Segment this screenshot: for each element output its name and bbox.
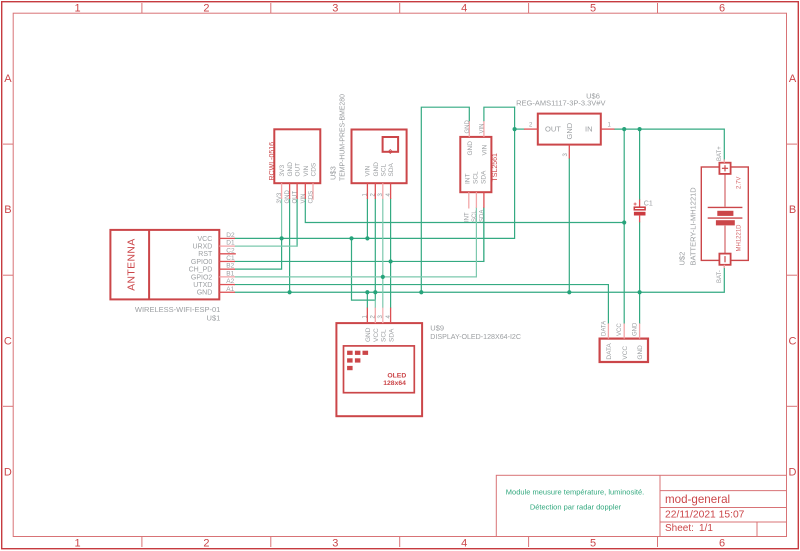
OLED pin numbers rotated [363, 315, 392, 319]
wire D1 net URXD light [235, 245, 297, 247]
ESP net labels [226, 232, 235, 293]
svg-text:SCL: SCL [380, 163, 387, 176]
svg-text:VCC: VCC [198, 236, 213, 243]
svg-text:B: B [789, 204, 796, 216]
svg-text:SDA: SDA [388, 162, 395, 176]
frame column numbers bottom [74, 538, 725, 550]
node BAT+/connector VCC [622, 127, 626, 131]
svg-text:U$9: U$9 [430, 324, 444, 333]
svg-text:VIN: VIN [482, 144, 489, 155]
svg-text:4: 4 [461, 538, 467, 550]
display outer box [336, 323, 422, 416]
frame row ticks right [787, 144, 798, 406]
node GND/RCWL [288, 290, 292, 294]
ESP pin stubs [219, 238, 236, 292]
wire VCC branch to OLED pin2 L-path [352, 238, 376, 300]
frame row letters right [789, 73, 797, 479]
battery pin stubs [723, 160, 725, 269]
RCWL net labels rotated [277, 190, 314, 204]
svg-text:128x64: 128x64 [383, 380, 406, 387]
svg-text:URXD: URXD [192, 244, 212, 251]
plus symbol [722, 165, 728, 171]
frame column ticks top [142, 3, 658, 13]
light sensor box [460, 137, 491, 192]
svg-text:RCWL-0516: RCWL-0516 [269, 142, 276, 181]
battery plates [708, 206, 743, 208]
wire RCWL OUT vertical [296, 199, 298, 246]
svg-text:GND: GND [373, 162, 380, 177]
TSL bottom pin stubs [469, 192, 484, 208]
wire VCC D2 net: ESP VCC to regulator OUT [235, 107, 515, 238]
node D2/BME VIN [365, 236, 369, 240]
frame column ticks bottom [142, 537, 658, 548]
svg-text:B2: B2 [226, 263, 234, 270]
svg-text:GND: GND [287, 162, 294, 177]
cap top plate [634, 207, 645, 210]
svg-text:A2: A2 [226, 278, 234, 285]
BAT+ terminal box [719, 163, 730, 174]
svg-text:SDA: SDA [388, 328, 395, 342]
connector box [600, 339, 648, 362]
inner sub box [383, 137, 399, 152]
svg-text:3: 3 [332, 3, 338, 15]
svg-text:GND: GND [285, 190, 291, 204]
connector pin stubs [608, 323, 639, 338]
svg-text:GPIO2: GPIO2 [191, 274, 213, 281]
wire TSL VIN to regulator OUT column [484, 107, 515, 121]
wire RCWL GND vertical [289, 199, 291, 292]
svg-text:INT: INT [464, 212, 470, 222]
wire regulator OUT pin2 [515, 128, 524, 130]
svg-text:VCC: VCC [617, 323, 623, 336]
svg-text:GND: GND [465, 120, 471, 134]
TSL pin names inside bottom [464, 170, 487, 184]
node VCC column/reg OUT [513, 127, 517, 131]
wire connector VCC column [623, 129, 625, 323]
svg-text:D: D [789, 467, 797, 479]
svg-text:2: 2 [203, 3, 209, 15]
wire OLED pin2 VCC light segment [374, 300, 376, 308]
svg-text:3: 3 [563, 153, 569, 157]
wire GND A1 rail [235, 265, 724, 292]
svg-text:C: C [4, 336, 12, 348]
node GND/BME GND [373, 290, 377, 294]
frame column numbers top [74, 3, 725, 15]
svg-text:UTXD: UTXD [193, 282, 212, 289]
svg-text:A: A [4, 73, 12, 85]
svg-text:C1: C1 [644, 201, 653, 208]
svg-text:ANTENNA: ANTENNA [126, 238, 137, 290]
svg-text:INT: INT [464, 174, 471, 185]
node GND/OLED pin1 [365, 290, 369, 294]
screen pixel pattern [347, 351, 368, 370]
regulator box [538, 114, 601, 145]
svg-text:D1: D1 [226, 240, 235, 247]
svg-text:VIN: VIN [479, 123, 485, 133]
wire CH_PD B2 to 3V3 column [235, 238, 282, 269]
svg-text:GND: GND [197, 290, 213, 297]
OLED pin stubs [367, 308, 390, 324]
cap stubs [639, 200, 641, 223]
wire OLED pin1 GND vertical [366, 292, 368, 307]
temp sensor box [352, 130, 407, 184]
svg-text:1: 1 [74, 538, 80, 550]
connector pin names inside [606, 343, 644, 360]
svg-text:2.7V: 2.7V [736, 177, 742, 189]
node D2/OLED VCC branch [349, 236, 353, 240]
svg-text:DATA: DATA [601, 321, 607, 336]
wire RCWL 3V3 light vertical [281, 199, 283, 238]
wire BME VIN vertical [366, 199, 368, 238]
radar sensor box [274, 129, 320, 183]
svg-text:B1: B1 [226, 270, 234, 277]
svg-text:3: 3 [332, 538, 338, 550]
svg-text:OUT: OUT [295, 163, 302, 177]
svg-text:5: 5 [590, 3, 596, 15]
svg-text:IN: IN [585, 125, 593, 134]
svg-text:GND: GND [365, 327, 372, 342]
svg-text:2: 2 [529, 123, 533, 129]
node GND/TSL loop [419, 290, 423, 294]
svg-text:mod-general: mod-general [665, 493, 730, 506]
display screen box [344, 346, 415, 393]
battery outline [701, 167, 748, 260]
svg-text:BATTERY-LI-MH1221D: BATTERY-LI-MH1221D [689, 187, 698, 266]
wire UTXD A2 net to connector DATA [235, 285, 608, 324]
svg-text:B: B [4, 204, 11, 216]
svg-text:CH_PD: CH_PD [189, 267, 213, 274]
svg-text:C2: C2 [226, 247, 235, 254]
frame row ticks left [3, 144, 13, 406]
svg-text:U$2: U$2 [677, 252, 686, 266]
wire BAT+ top rail from regulator IN [615, 129, 725, 160]
BME pin names inside [364, 162, 395, 177]
regulator pin stubs [524, 129, 615, 158]
svg-text:4: 4 [461, 3, 467, 15]
node D2/3V3 [280, 236, 284, 240]
svg-text:SDA: SDA [479, 210, 485, 222]
svg-text:U$1: U$1 [207, 313, 221, 322]
wire RCWL VIN to VCC junction column [305, 199, 624, 223]
svg-text:C: C [789, 336, 797, 348]
cap bottom plate [634, 212, 646, 216]
wire BME SCL light vertical to OLED pin3 [382, 199, 384, 308]
svg-text:D: D [4, 467, 12, 479]
wire TSL SDA vertical [483, 208, 485, 262]
junction dots [280, 127, 642, 294]
wire cap C1 top column [639, 129, 641, 199]
frame row letters left [4, 73, 12, 479]
svg-text:GPIO0: GPIO0 [191, 259, 213, 266]
svg-text:GND: GND [637, 345, 644, 360]
svg-text:TSL2561: TSL2561 [492, 153, 499, 182]
svg-text:CDS: CDS [309, 191, 315, 204]
wire SCL B1 net light horizontal [235, 208, 476, 277]
TSL bottom net labels rotated [464, 210, 485, 222]
svg-text:OUT: OUT [545, 125, 561, 134]
node BAT+/cap [638, 127, 642, 131]
svg-text:DATA: DATA [606, 343, 613, 360]
svg-text:D2: D2 [226, 232, 235, 239]
svg-text:VIN: VIN [303, 165, 310, 176]
svg-text:A1: A1 [226, 286, 234, 293]
node SCL/BME [381, 275, 385, 279]
svg-text:BAT+: BAT+ [717, 146, 723, 161]
RCWL pin names inside [279, 162, 317, 177]
svg-text:TEMP-HUM-PRES-BME280: TEMP-HUM-PRES-BME280 [339, 94, 346, 181]
cap plus mark [634, 203, 637, 206]
svg-text:RST: RST [198, 251, 213, 258]
TSL top pin stubs [469, 121, 484, 137]
BAT- terminal box [719, 254, 730, 265]
svg-text:GND: GND [632, 322, 638, 336]
svg-text:Détection par radar doppler: Détection par radar doppler [530, 503, 622, 512]
svg-text:6: 6 [719, 3, 725, 15]
svg-text:Module meusure température, lu: Module meusure température, luminosité. [506, 487, 644, 496]
svg-text:MH1221D: MH1221D [736, 224, 742, 252]
svg-text:SCL: SCL [472, 210, 478, 222]
svg-text:1/1: 1/1 [699, 523, 713, 534]
BME pin stubs [367, 183, 390, 199]
light nets [235, 199, 476, 308]
svg-text:OUT: OUT [293, 191, 299, 204]
svg-text:22/11/2021 15:07: 22/11/2021 15:07 [665, 510, 745, 521]
svg-text:CDS: CDS [311, 162, 318, 176]
svg-text:GND: GND [467, 141, 474, 156]
node GND/cap column [638, 290, 642, 294]
node GND/reg pin3 [567, 290, 571, 294]
wire TSL GND loop to GND rail [421, 107, 469, 292]
node SDA/BME [389, 259, 393, 263]
svg-text:A: A [789, 73, 797, 85]
ESP pin names [189, 236, 213, 297]
wireless module U$1 box [110, 230, 219, 300]
title block [496, 475, 786, 536]
svg-text:SCL: SCL [472, 171, 479, 184]
svg-text:REG-AMS1117-3P-3.3V#V: REG-AMS1117-3P-3.3V#V [516, 99, 605, 108]
svg-text:3V3: 3V3 [279, 165, 286, 177]
svg-text:VIN: VIN [364, 165, 371, 176]
svg-text:VCC: VCC [373, 328, 380, 342]
inner diamond mark [388, 150, 392, 154]
TSL top net labels rotated [465, 120, 486, 134]
node VIN line/connector VCC [622, 220, 626, 224]
svg-text:Sheet:: Sheet: [665, 523, 694, 534]
svg-text:GND: GND [565, 122, 574, 139]
svg-text:OLED: OLED [387, 372, 406, 379]
connector net labels rotated [601, 321, 638, 336]
wire regulator GND pin3 vertical [568, 159, 570, 293]
svg-text:1: 1 [608, 123, 612, 129]
wire cap C1 bottom to connector GND [639, 222, 641, 323]
svg-text:SCL: SCL [381, 329, 388, 342]
svg-text:VCC: VCC [622, 346, 629, 360]
wire BME SDA vertical down to OLED pin4 [390, 199, 392, 308]
TSL pin names inside top [467, 141, 489, 156]
wire SDA C1 net horizontal [235, 208, 484, 262]
svg-text:DISPLAY-OLED-128X64-I2C: DISPLAY-OLED-128X64-I2C [430, 333, 521, 341]
svg-text:2: 2 [203, 538, 209, 550]
svg-text:3V3: 3V3 [277, 192, 283, 203]
svg-text:SDA: SDA [480, 170, 487, 184]
svg-text:VIN: VIN [301, 193, 307, 203]
svg-text:U$3: U$3 [329, 166, 338, 180]
svg-text:6: 6 [719, 538, 725, 550]
battery internal connections [724, 174, 726, 254]
RCWL pin stubs [282, 183, 313, 200]
svg-text:5: 5 [590, 538, 596, 550]
minus symbol rotated [724, 256, 726, 262]
OLED pin names inside [365, 327, 395, 342]
wire BME GND vertical down to OLED pin2 [374, 199, 376, 300]
BME pin numbers rotated [363, 193, 392, 197]
svg-text:BAT-: BAT- [717, 270, 723, 283]
svg-text:1: 1 [74, 3, 80, 15]
svg-text:C1: C1 [226, 255, 235, 262]
